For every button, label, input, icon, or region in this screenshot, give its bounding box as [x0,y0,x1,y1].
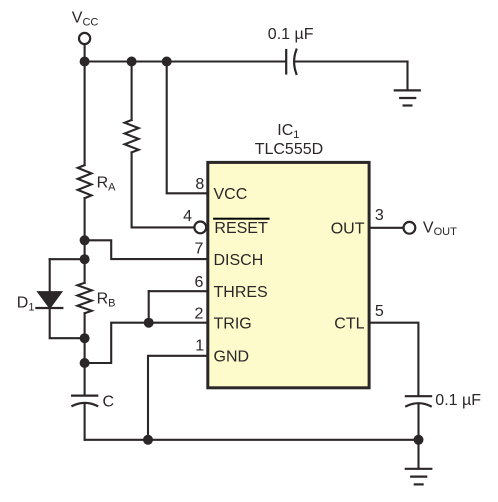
wire Rb upper lead [84,259,86,283]
svg-text:C: C [103,394,115,411]
svg-text:VCC: VCC [214,186,248,203]
junction bottom rail ctl [414,435,424,445]
wire ground drop top right [406,62,408,91]
wire D1 top link [50,258,85,260]
svg-text:TLC555D: TLC555D [255,141,323,158]
wire reset branch lower [132,152,195,227]
wire vcc pin branch [167,62,207,194]
wire Ra upper [84,62,86,166]
capacitor C [72,396,97,406]
wire out pin [370,227,404,229]
svg-text:DISCH: DISCH [214,252,264,269]
wire top rail right [295,60,408,62]
svg-text:8: 8 [195,176,204,193]
wire cap C upper lead [84,363,86,396]
wire top rail left [85,60,286,62]
wire reset branch upper [131,62,133,121]
wire D1 anode lead [49,259,51,292]
svg-text:OUT: OUT [331,221,365,238]
wire gnd pin connection [148,356,206,440]
junction disch node [80,235,90,245]
svg-text:5: 5 [375,303,384,320]
wire Rb lower lead [84,313,86,363]
junction top rail B [127,57,137,67]
resistor reset pull-up [125,120,139,152]
pin name RESET overline [213,218,270,220]
pin 4 inverter bubble [194,222,206,234]
resistor RA [78,165,92,198]
capacitor 0.1uF bypass top [286,50,296,74]
junction trig left node [80,358,90,368]
ground bottom right [406,469,432,485]
wire bottom rail [85,439,419,441]
svg-text:0.1 µF: 0.1 µF [268,26,314,43]
terminal Vcc [79,33,90,44]
wire Ra to disch node [84,198,86,259]
svg-text:RESET: RESET [214,220,268,237]
svg-text:1: 1 [195,338,204,355]
wire ctl connection [370,323,419,396]
wire disch connection [85,240,207,259]
svg-text:6: 6 [194,274,203,291]
junction thres-trig node [144,318,154,328]
diode D1 [39,292,62,307]
svg-text:3: 3 [375,207,384,224]
junction D1 bottom node [80,333,90,343]
junction bottom rail gnd [143,435,153,445]
svg-text:0.1 µF: 0.1 µF [435,392,481,409]
terminal Vout [404,222,416,234]
svg-text:4: 4 [183,208,192,225]
resistor RB [77,283,91,314]
wire thres connection [149,290,207,292]
junction D1 top node [80,254,90,264]
diode D1 cathode bar [36,307,62,309]
wire thres drop [148,291,150,323]
junction top rail C [162,57,172,67]
svg-text:7: 7 [194,241,203,258]
capacitor 0.1uF ctl [406,396,431,406]
wire D1 cathode lead [50,308,85,338]
wire cap C lower lead [84,404,86,440]
IC U1 body [208,162,369,387]
wire trig connection [149,322,207,324]
svg-text:CTL: CTL [334,316,364,333]
svg-text:2: 2 [194,305,203,322]
svg-text:THRES: THRES [214,284,268,301]
ground top right [395,90,420,105]
svg-text:TRIG: TRIG [214,316,252,333]
junction top rail A [80,57,90,67]
wire Vcc stub [84,45,86,62]
wire trig link [85,323,149,363]
wire ctl cap lower lead [417,404,419,468]
svg-text:GND: GND [214,349,250,366]
